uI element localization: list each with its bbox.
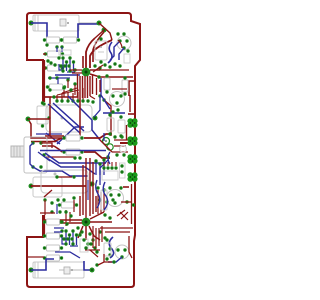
- clover pad 1: [127, 118, 137, 128]
- diode D3: [101, 190, 107, 210]
- pad K1 left: [47, 116, 50, 119]
- pad input bottom: [29, 268, 34, 273]
- wire red left col: [43, 60, 45, 102]
- wire red clover2 col: [126, 125, 128, 140]
- wire red diag right mid: [100, 140, 112, 152]
- capacitor C5: [104, 243, 111, 256]
- wire blue diag K1 a3: [53, 103, 84, 131]
- wire red q4: [121, 201, 132, 203]
- pad edge right: [126, 49, 129, 52]
- wire red fan left long: [44, 97, 78, 105]
- wire red bundle down to star2: [80, 158, 96, 218]
- star pad 2: [82, 218, 91, 227]
- wire blue right vert: [94, 96, 100, 117]
- wire blue cluster A row77: [48, 77, 70, 79]
- wire blue cluster B upper: [54, 228, 64, 232]
- wire red curve2: [90, 40, 112, 68]
- wire blue diag K1 a2: [48, 104, 80, 133]
- wire red diag K2: [44, 190, 52, 197]
- wire red under inductor: [40, 200, 55, 215]
- wire red to clover1: [128, 113, 134, 115]
- relay K2 body: [41, 170, 88, 193]
- wire blue triple h2: [45, 157, 95, 174]
- wire blue mid right: [103, 133, 105, 141]
- pad bottom right2: [95, 263, 98, 266]
- wire red cluster B h: [85, 250, 100, 257]
- wire red cluster mid br: [98, 190, 104, 214]
- wire red left mid1: [28, 118, 50, 120]
- resistor row RB (y152): [62, 149, 83, 155]
- wire blue cluster A bottom: [55, 74, 80, 76]
- star pad 1: [82, 68, 91, 77]
- wire red lead RB right: [84, 152, 110, 158]
- pad top center 2: [102, 28, 107, 33]
- IC U2 comb blue: [60, 229, 78, 246]
- wire red lead RB left: [54, 146, 62, 152]
- node dots top cluster left: [46, 45, 63, 62]
- pads row under cluster: [93, 62, 121, 69]
- right mid cluster: [104, 74, 128, 106]
- pads row above K1: [55, 99, 84, 102]
- IC U1 comb blue: [57, 56, 76, 72]
- wire red row under cluster: [100, 69, 129, 71]
- wire red right mid cluster rows: [112, 140, 128, 152]
- wire blue input bottom: [31, 259, 54, 270]
- pads zone mid-left: [48, 78, 76, 91]
- resistor R3: [44, 51, 64, 57]
- potentiometer P1: [11, 137, 47, 173]
- resistor row RA (y138): [62, 135, 83, 141]
- wire blue left pair: [36, 133, 62, 135]
- wire red right vertical lower: [132, 184, 136, 224]
- wire red star2 right rays: [90, 212, 112, 222]
- header J1 pads: [102, 166, 118, 180]
- pads row above K2: [73, 156, 81, 159]
- wire red bottom right vert: [129, 236, 132, 258]
- wire red curve2b: [93, 32, 104, 62]
- wire blue to pad: [78, 24, 99, 38]
- wire blue q3b: [108, 257, 122, 262]
- pad right of fan2: [102, 98, 105, 101]
- wire red left mid2: [31, 185, 86, 187]
- pad input top: [29, 21, 34, 26]
- resistor R9: [43, 255, 63, 261]
- resistor R2: [60, 37, 80, 43]
- wire red curve3: [82, 56, 84, 68]
- wire red diag q4: [117, 210, 125, 216]
- wire red row y158: [46, 156, 74, 158]
- wire blue cluster B: [55, 252, 80, 258]
- wire red lead RA right: [84, 134, 112, 138]
- wire red q1 right: [118, 40, 122, 48]
- wire red star2 left rays: [45, 220, 82, 223]
- wire red from pad diag: [99, 23, 112, 40]
- wire red below K1: [45, 135, 64, 137]
- wire red from bottom pad: [98, 254, 112, 265]
- wire blue right mid: [101, 78, 110, 109]
- wire red zone mid-left: [64, 80, 75, 97]
- wire blue triple h3: [33, 167, 88, 176]
- pad near clover4: [119, 186, 122, 189]
- clover pad 3: [127, 154, 137, 164]
- board outline: [27, 13, 140, 287]
- green ring right2: [107, 144, 113, 150]
- wire red below K1 left pair: [28, 119, 62, 146]
- wire red curves into star1 from top: [86, 38, 95, 68]
- pad mid: [42, 102, 45, 105]
- resistor R10: [58, 202, 78, 208]
- wire blue right mid2: [103, 112, 125, 114]
- wire blue pot diag: [38, 152, 50, 161]
- capacitor C6 body bottom: [33, 262, 84, 278]
- pad left mid2: [29, 184, 34, 189]
- wire red inner right trace top: [129, 66, 135, 118]
- pads near C5: [105, 238, 115, 263]
- resistor R6: [43, 219, 63, 225]
- wire red to clover4: [123, 186, 129, 188]
- cluster mid bottom right: [96, 186, 114, 203]
- wire red right col: [104, 100, 111, 136]
- pads row right ext: [86, 99, 94, 103]
- wire red stub r3: [43, 53, 46, 55]
- wire red stub97: [44, 96, 51, 98]
- resistor R4: [44, 65, 64, 71]
- wire blue r5: [57, 78, 59, 84]
- wire red bottom left stub: [28, 256, 44, 258]
- pads right mid cluster: [113, 135, 125, 156]
- wire red right mid h90: [112, 88, 127, 90]
- pads near C3C4: [108, 113, 122, 137]
- resistor R7: [43, 233, 63, 239]
- wire red star2 down rays: [78, 226, 100, 240]
- wire blue from input pad: [31, 23, 47, 43]
- wire red header stubs: [104, 162, 116, 166]
- wire blue cluster A left: [57, 47, 62, 52]
- wire blue center long: [40, 150, 106, 152]
- wire red fan diagonals: [57, 88, 79, 95]
- gray rect cluster B: [80, 239, 88, 252]
- wire red through K1: [50, 98, 80, 136]
- wire red left col bottom: [43, 215, 45, 237]
- wire red x right: [120, 212, 128, 220]
- pad blue end: [45, 43, 48, 46]
- capacitor C2 vertical: [37, 101, 48, 127]
- pad right lower: [132, 203, 135, 206]
- pad K2 right: [90, 182, 95, 187]
- wire blue in bundle: [87, 180, 89, 200]
- wire red K2 inner: [58, 176, 72, 178]
- wire blue s2 q4: [96, 180, 100, 208]
- wire blue q1b: [119, 48, 124, 60]
- gray rect cluster A: [59, 50, 71, 55]
- capacitor C4: [118, 120, 125, 133]
- wire red pot: [41, 143, 52, 148]
- pads left of q3: [108, 247, 111, 256]
- wire red stub r4: [43, 67, 46, 69]
- relay K1 body: [46, 105, 92, 132]
- node b2 dots: [60, 220, 98, 253]
- wire blue bottom right lead: [84, 261, 90, 270]
- node b dots: [80, 230, 106, 249]
- wire blue s mid-right: [108, 152, 110, 164]
- capacitor C3: [107, 118, 114, 131]
- wire red col under inductor: [66, 200, 74, 226]
- resistor R8: [43, 245, 63, 251]
- wire red from pad2 diag: [95, 30, 104, 38]
- pads right mid extra: [97, 75, 119, 113]
- wire red star1 right rays: [90, 70, 133, 77]
- pad q4 right: [125, 200, 128, 203]
- comps left under inductor: [43, 198, 61, 213]
- pad mid2: [52, 95, 55, 98]
- wire red fan to pads row: [57, 88, 95, 101]
- transistor Q4: [107, 190, 124, 207]
- inductor L1: [33, 177, 62, 197]
- wire blue q3: [109, 237, 113, 258]
- comp edge right: [124, 54, 130, 63]
- wire blue q1: [110, 41, 120, 60]
- transistor Q1: [116, 32, 131, 50]
- wire red right mid: [129, 95, 131, 112]
- wire blue snake q4: [103, 182, 107, 210]
- pads K2 inner: [55, 175, 75, 178]
- transistor Q3: [115, 245, 129, 259]
- resistor R1: [43, 37, 63, 43]
- green ring right: [103, 138, 110, 145]
- wire red bottom right rows: [100, 228, 133, 232]
- pad top center: [97, 21, 102, 26]
- pads row77: [48, 61, 58, 79]
- wire blue diag K1 b: [46, 133, 60, 144]
- wire red lead RA left: [54, 138, 62, 142]
- wire red diag under cluster: [93, 65, 103, 72]
- wire blue cluster mid br: [100, 160, 108, 185]
- wire blue snake right: [108, 42, 112, 63]
- wire red to clover2: [120, 142, 128, 144]
- pad left mid1: [26, 117, 31, 122]
- pads under q4: [103, 213, 111, 219]
- wire red star1 left rays: [70, 70, 82, 73]
- wire red right mid col2: [97, 78, 101, 95]
- resistor R5: [46, 84, 66, 90]
- pad bottom right of lead: [90, 268, 95, 273]
- clover pad 2: [127, 136, 137, 146]
- pad right of rings: [106, 155, 109, 158]
- pads under inductor2: [62, 196, 75, 217]
- via ring right: [120, 146, 127, 153]
- wire blue under inductor: [56, 204, 58, 214]
- pad K1 right: [93, 116, 98, 121]
- blue comb mid-right: [94, 158, 105, 175]
- comp right edge: [120, 163, 126, 178]
- capacitor C1 body: [33, 15, 97, 31]
- clover pad 4: [127, 172, 137, 182]
- wire red star1 bundle down: [78, 74, 93, 98]
- wire blue diag K1 c: [57, 127, 84, 144]
- diode D1: [95, 37, 107, 63]
- wire red cluster B verts: [93, 226, 102, 248]
- wire blue triple h1: [45, 153, 106, 163]
- pad right of fan: [98, 94, 101, 97]
- wire blue diag K1 a: [68, 96, 100, 140]
- wire blue pot: [30, 143, 33, 167]
